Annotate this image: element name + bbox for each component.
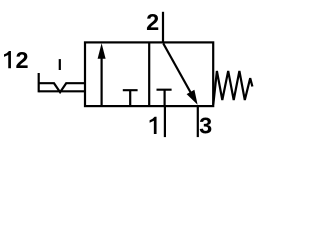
- svg-text:3: 3: [199, 113, 212, 139]
- valve body V1 (3/2-way valve, two position boxes): [85, 42, 213, 106]
- pilot port 12 label (digit 1): [4, 51, 11, 68]
- blocked port T (left position): [123, 90, 138, 106]
- pilot actuator (port 12, left side): [39, 59, 85, 92]
- port 2 line: [162, 12, 164, 43]
- port 1 line: [164, 106, 166, 137]
- return spring (right side): [213, 71, 252, 105]
- svg-text:2: 2: [146, 9, 159, 35]
- port 1 label: [150, 117, 157, 134]
- blocked port T (right position): [157, 90, 172, 106]
- flow path arrow 2 to 3 (right position): [163, 44, 197, 105]
- position divider: [148, 42, 150, 106]
- svg-text:2: 2: [16, 47, 29, 73]
- flow arrow up (left position, 1 to 2): [98, 43, 106, 106]
- port 3 line: [197, 106, 199, 137]
